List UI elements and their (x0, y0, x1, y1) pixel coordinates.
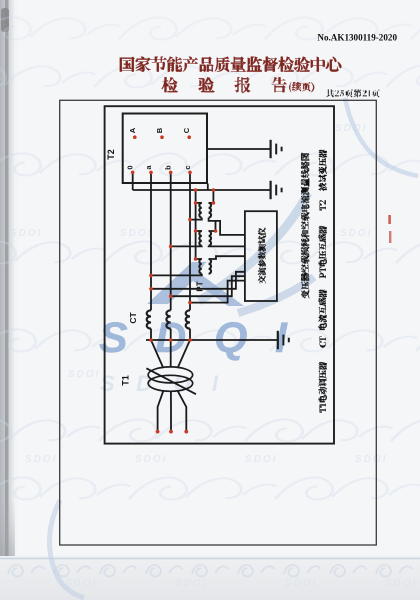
svg-text:CT: CT (128, 312, 138, 324)
figure frame (105, 106, 334, 443)
wire: phase b below CT2 (170, 329, 172, 340)
wire: neutral 0 drop (132, 172, 134, 190)
left spine shading (0, 0, 15, 600)
wire: phase c below CT3 (189, 329, 191, 340)
wire: PT primary common feed (195, 190, 197, 259)
svg-text:SDOI: SDOI (25, 454, 57, 465)
wire: neutral bus to ground (line B) (133, 189, 271, 191)
bottom scan band (0, 556, 420, 600)
node PT1-phase c (188, 218, 192, 222)
wire: PT2 primary bottom to phase b (171, 245, 202, 248)
neutral bus junctions (194, 188, 215, 192)
wire: secondary chain to PT2 (209, 221, 216, 231)
figure caption title (rotated) (301, 153, 309, 299)
terminals 0 a b c (131, 171, 192, 175)
ground 3 (278, 331, 289, 349)
svg-text:PT: PT (196, 281, 205, 291)
svg-text:B: B (155, 127, 164, 133)
wire: T2 corner drop to neutral bus (207, 184, 209, 191)
node PT3-phase a (149, 274, 153, 278)
svg-text:C: C (182, 127, 191, 133)
legend: voltage transformer (319, 226, 327, 266)
wire: T2 HV side to ground 1 (207, 148, 271, 150)
CT secondary tap junctions (149, 287, 192, 304)
legend: motor voltage regulator (319, 362, 327, 402)
common line junctions (149, 338, 192, 342)
legend: transformer under test (319, 150, 327, 191)
T1 variable arrow diagonal (146, 368, 196, 394)
voltage transformer PT2 (196, 230, 202, 232)
svg-text:SDOI: SDOI (10, 228, 42, 239)
wire: PT secondary common drop (209, 190, 214, 203)
red edge marks (388, 215, 391, 224)
voltage transformer PT1 (196, 202, 202, 204)
wire: CT2 secondary to tester (171, 276, 245, 296)
svg-text:SDOI: SDOI (340, 228, 372, 239)
wire: T1 output right (178, 391, 187, 431)
wire: phase a below CT1 (150, 329, 152, 340)
current transformer CT3 coil (186, 310, 190, 328)
node PT2-phase b (169, 245, 173, 249)
wire: phase a vertical (150, 172, 152, 310)
svg-text:SDOI: SDOI (68, 369, 100, 380)
voltage regulator T1 winding 2 (148, 375, 193, 391)
svg-text:T1: T1 (120, 375, 130, 386)
header line 2 (red) (162, 77, 287, 93)
terminals A B C (133, 135, 191, 139)
ground 1 (271, 140, 282, 158)
svg-text:SDOI: SDOI (120, 228, 152, 239)
legend CT (320, 337, 326, 348)
svg-text:A: A (128, 127, 137, 133)
wire: PT3 primary bottom to phase a (151, 274, 202, 276)
PT primary top junctions (194, 201, 198, 261)
wire: into regulator right (178, 340, 190, 368)
tiled watermark (0, 17, 120, 39)
wire: T1 output left (158, 391, 164, 431)
legend T2 (320, 200, 326, 210)
svg-text:SDOI: SDOI (135, 454, 167, 465)
PT secondary top junctions (212, 201, 218, 233)
svg-text:b: b (164, 165, 173, 170)
svg-text:SDOI: SDOI (65, 578, 97, 589)
ac parameter tester box U1 (245, 211, 277, 301)
svg-text:SDOI: SDOI (285, 578, 317, 589)
current transformer CT1 coil (147, 310, 151, 328)
wire: PT2 secondary to tester (209, 245, 245, 248)
svg-text:No.AK1300119-2020: No.AK1300119-2020 (317, 33, 397, 43)
legend T1 (320, 404, 326, 413)
svg-text:0: 0 (126, 166, 135, 170)
ground 2 (271, 181, 282, 199)
svg-text:T2: T2 (106, 149, 116, 160)
wire: into regulator mid (170, 340, 172, 367)
wire: common line to ground 3 (146, 339, 278, 341)
wire: PT1 primary bottom to phase c (190, 218, 202, 220)
voltage regulator T1 winding 1 (148, 367, 193, 383)
svg-text:SDOI: SDOI (355, 454, 387, 465)
wire: PT3 secondary top to tester (209, 256, 245, 259)
wire: CT3 secondary to tester (190, 281, 245, 303)
svg-text:SDOI: SDOI (175, 578, 207, 589)
page border (60, 100, 377, 545)
svg-text:SDOI: SDOI (245, 454, 277, 465)
wire: into regulator left (151, 340, 163, 368)
T1 output terminals (156, 430, 189, 434)
central watermark logo (345, 98, 418, 176)
wire: phase b vertical (170, 172, 172, 310)
legend: current transformer (319, 290, 327, 330)
svg-text:SDOI: SDOI (385, 578, 417, 589)
current transformer CT2 coil (166, 310, 170, 328)
label tester (rotated) (258, 228, 266, 284)
transformer T2 (device under test) box (123, 114, 207, 184)
legend PT (320, 267, 326, 278)
page count (326, 89, 380, 97)
wire: T1 output mid (170, 391, 172, 430)
wire: PT1 secondary to tester (209, 218, 245, 235)
svg-text:c: c (183, 166, 192, 170)
header line 1 (red) (120, 57, 342, 72)
wire: CT1 secondary to tester (151, 272, 245, 289)
voltage transformer PT3 (196, 258, 202, 260)
wire: phase c vertical (189, 172, 191, 310)
